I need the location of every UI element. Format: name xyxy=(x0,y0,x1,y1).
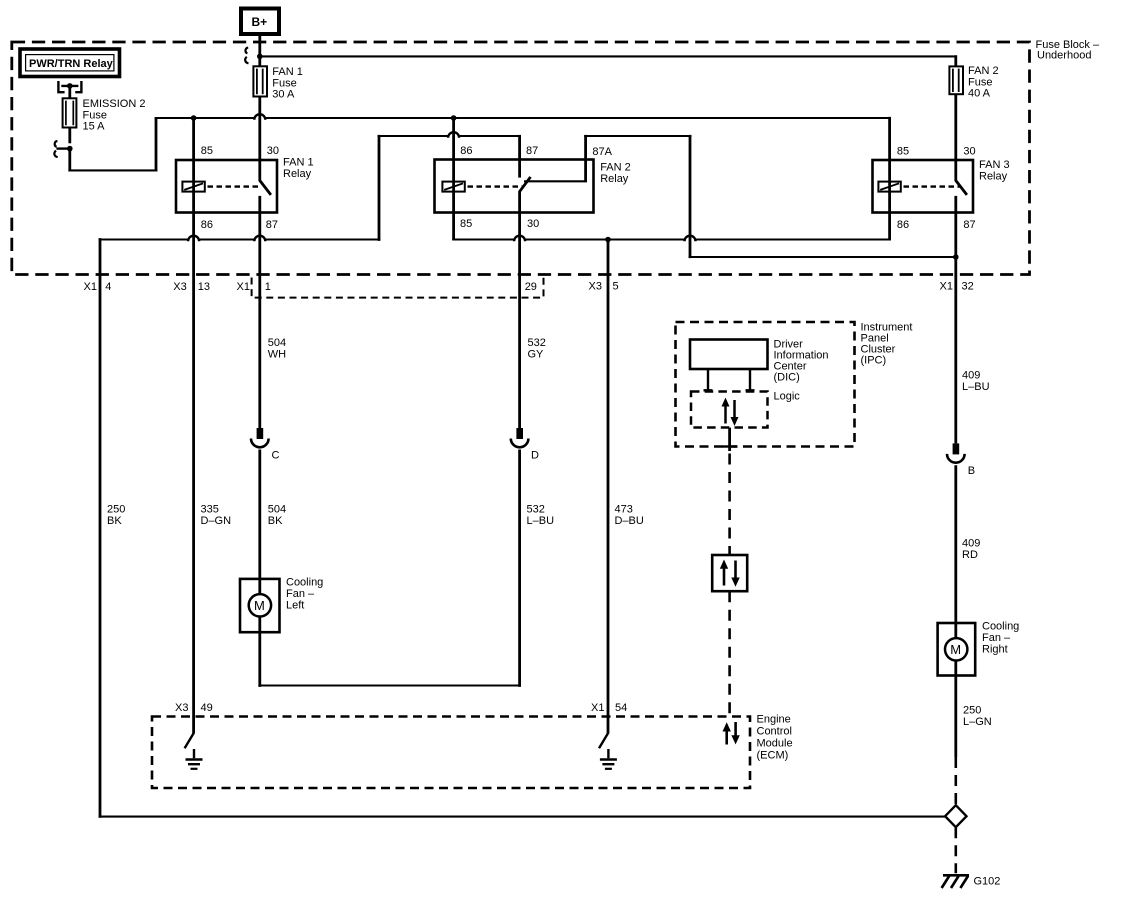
fuse FAN2 40A xyxy=(949,66,963,94)
in-line terminal hooks at B+ fuse block entry xyxy=(245,48,248,54)
svg-text:86: 86 xyxy=(201,219,213,231)
svg-text:(ECM): (ECM) xyxy=(757,750,789,762)
crossover y136 line over FAN2 coil wire xyxy=(448,132,459,138)
svg-text:RD: RD xyxy=(962,549,978,561)
junction dot bus2 to 473 D-BU drop xyxy=(605,237,611,243)
svg-text:87A: 87A xyxy=(592,146,612,158)
svg-text:X1: X1 xyxy=(84,281,97,293)
wire connector B to right fan motor xyxy=(954,465,957,757)
svg-text:Cooling: Cooling xyxy=(286,577,323,589)
svg-text:Right: Right xyxy=(982,644,1008,656)
svg-text:532: 532 xyxy=(528,337,546,349)
relay FAN2 coil xyxy=(442,182,464,192)
ECM dashed box xyxy=(152,717,750,789)
wire PWR/TRN terminal to EMISSION 2 fuse xyxy=(68,86,71,98)
svg-text:Relay: Relay xyxy=(600,173,629,185)
ECM serial data arrows xyxy=(723,722,740,745)
svg-text:30: 30 xyxy=(267,145,279,157)
svg-text:M: M xyxy=(950,642,961,657)
wire EMISSION 2 fuse to in-line connector xyxy=(68,128,71,144)
svg-text:Logic: Logic xyxy=(774,391,801,403)
gateway box arrows xyxy=(720,560,740,587)
svg-text:54: 54 xyxy=(615,702,627,714)
wire bus2-right FAN2 pin85 to FAN3 pin86 ECM link xyxy=(452,238,891,240)
svg-text:Relay: Relay xyxy=(283,168,312,180)
svg-text:X3: X3 xyxy=(589,281,602,293)
wire FAN2 pin87A route to FAN3 pin87 xyxy=(524,180,587,182)
PWR/TRN Relay callout box xyxy=(20,49,120,77)
serial data gateway box xyxy=(712,555,747,591)
in-line connector B xyxy=(947,443,965,462)
svg-text:87: 87 xyxy=(526,145,538,157)
serial data line IPC to ECM xyxy=(728,428,731,451)
serial data dashed line to ECM xyxy=(728,591,731,716)
svg-text:BK: BK xyxy=(268,515,283,527)
svg-text:409: 409 xyxy=(962,538,980,550)
svg-text:(DIC): (DIC) xyxy=(774,372,800,384)
svg-text:532: 532 xyxy=(527,504,545,516)
crossover bus2 over FAN2 pin30 wire xyxy=(514,236,525,242)
svg-text:Relay: Relay xyxy=(979,171,1008,183)
svg-text:FAN 1: FAN 1 xyxy=(272,66,303,78)
wire FAN2 pin30 down to connector D xyxy=(518,213,521,429)
svg-text:D: D xyxy=(531,450,539,462)
crossover bus2 over 87A wire xyxy=(685,236,696,242)
svg-text:X3: X3 xyxy=(173,281,186,293)
wire FAN3 pin30 with contact blade xyxy=(956,94,967,195)
svg-text:FAN 2: FAN 2 xyxy=(968,65,999,77)
svg-text:Cooling: Cooling xyxy=(982,621,1019,633)
svg-text:L–BU: L–BU xyxy=(527,515,555,527)
relay FAN3 box xyxy=(873,160,974,213)
IPC border crossing dash xyxy=(723,445,738,447)
svg-text:5: 5 xyxy=(613,281,619,293)
svg-text:X3: X3 xyxy=(175,702,188,714)
svg-text:40 A: 40 A xyxy=(968,88,991,100)
wire dashed splice to ground G102 xyxy=(954,827,957,873)
svg-text:Fuse: Fuse xyxy=(968,76,992,88)
svg-text:FAN 2: FAN 2 xyxy=(600,162,631,174)
svg-text:Engine: Engine xyxy=(757,714,791,726)
svg-text:4: 4 xyxy=(105,281,111,293)
svg-text:L–BU: L–BU xyxy=(962,381,990,393)
svg-text:(IPC): (IPC) xyxy=(861,355,887,367)
svg-text:15 A: 15 A xyxy=(83,121,106,133)
motor M1 circle xyxy=(249,594,271,616)
relay FAN1 coil-contact dashed link xyxy=(208,185,259,187)
svg-text:86: 86 xyxy=(897,219,909,231)
motor M1 cooling fan left box xyxy=(240,579,280,632)
logic box serial data arrows xyxy=(722,398,739,427)
svg-text:1: 1 xyxy=(265,281,271,293)
relay FAN3 coil xyxy=(878,182,900,192)
X1 underhood connector dashed outline xyxy=(252,278,544,298)
svg-text:30: 30 xyxy=(963,146,975,158)
wire EMISSION 2 output to relay coil bus xyxy=(68,149,71,172)
svg-text:32: 32 xyxy=(962,281,974,293)
svg-text:250: 250 xyxy=(107,504,125,516)
svg-text:Control: Control xyxy=(757,726,792,738)
svg-text:250: 250 xyxy=(963,705,981,717)
svg-text:29: 29 xyxy=(525,281,537,293)
wire FAN1 pin85 coil pin86 down to ECM X3-49 xyxy=(192,118,195,734)
svg-text:Fuse: Fuse xyxy=(83,109,107,121)
svg-text:504: 504 xyxy=(268,337,286,349)
svg-text:49: 49 xyxy=(201,702,213,714)
svg-text:D–BU: D–BU xyxy=(615,515,644,527)
svg-text:30: 30 xyxy=(527,218,539,230)
svg-text:L–GN: L–GN xyxy=(963,716,992,728)
motor M2 circle xyxy=(945,638,967,660)
wire 473 D-BU drop to ECM X1-54 xyxy=(607,240,610,734)
DIC legs xyxy=(708,369,750,390)
svg-text:Fuse: Fuse xyxy=(272,77,296,89)
DIC display box xyxy=(690,340,768,370)
wire dashed to splice xyxy=(954,757,957,805)
svg-text:87: 87 xyxy=(266,219,278,231)
ECM high speed driver switch to ground xyxy=(599,733,617,769)
wire FAN3 pin87 down to connector B xyxy=(954,196,957,444)
svg-text:B: B xyxy=(968,465,975,477)
wire FAN2 pin87 feed from y136 line xyxy=(378,135,381,241)
svg-text:G102: G102 xyxy=(974,876,1001,888)
ECM low speed driver switch to ground xyxy=(185,733,203,769)
crossover bus2 over FAN1 pin86 wire xyxy=(188,236,199,242)
relay FAN3 coil-contact dashed link xyxy=(904,185,960,187)
svg-text:FAN 1: FAN 1 xyxy=(283,157,314,169)
relay FAN1 coil xyxy=(182,182,204,192)
svg-text:86: 86 xyxy=(460,145,472,157)
junction dot 87A to FAN3 87 wire xyxy=(953,254,959,260)
svg-text:473: 473 xyxy=(615,504,633,516)
in-line connector hooks below EMISSION 2 fuse xyxy=(55,141,58,147)
svg-text:M: M xyxy=(254,598,265,613)
svg-text:X1: X1 xyxy=(237,281,250,293)
wire FAN1 pin30 with contact blade xyxy=(260,97,271,195)
IPC dashed box xyxy=(676,322,855,447)
svg-text:Underhood: Underhood xyxy=(1037,50,1091,62)
ground G102 symbol xyxy=(942,875,969,888)
wire B+ feed down into fuse block xyxy=(258,34,261,66)
svg-text:Left: Left xyxy=(286,600,304,612)
svg-text:GY: GY xyxy=(528,349,545,361)
svg-text:FAN 3: FAN 3 xyxy=(979,159,1010,171)
motor M2 cooling fan right box xyxy=(938,623,976,676)
svg-text:B+: B+ xyxy=(252,15,268,29)
crossover bus2 over FAN1 pin87 wire xyxy=(254,236,265,241)
svg-text:Fan –: Fan – xyxy=(982,632,1011,644)
svg-text:D–GN: D–GN xyxy=(201,515,232,527)
wire FAN2 pin30 with contact blade xyxy=(520,177,531,213)
B+ power node box xyxy=(241,9,279,35)
junction dot bus1 to FAN2 coil xyxy=(451,115,457,121)
svg-text:EMISSION 2: EMISSION 2 xyxy=(83,98,146,110)
svg-text:C: C xyxy=(272,450,280,462)
crossover bus1 over FAN1 pin30 wire xyxy=(254,114,265,119)
svg-text:PWR/TRN Relay: PWR/TRN Relay xyxy=(29,58,114,70)
wire FAN2 pin86 coil pin85 down to bus2 xyxy=(452,118,455,240)
wire connector C to left fan motor and loop to connector D xyxy=(258,450,261,687)
svg-text:X1: X1 xyxy=(591,702,604,714)
svg-text:85: 85 xyxy=(460,218,472,230)
svg-text:Module: Module xyxy=(757,738,793,750)
in-line connector C xyxy=(251,428,269,447)
junction dot PWR/TRN terminal xyxy=(67,83,73,89)
fuse block underhood dashed box xyxy=(12,42,1030,275)
fuse FAN1 30A xyxy=(253,66,267,96)
relay FAN1 box xyxy=(176,160,277,213)
svg-text:30 A: 30 A xyxy=(272,89,295,101)
svg-text:BK: BK xyxy=(107,515,122,527)
svg-text:85: 85 xyxy=(201,145,213,157)
junction dot at EMISSION 2 connector xyxy=(67,146,73,152)
svg-text:Fan –: Fan – xyxy=(286,588,315,600)
junction dot B+ / bus0 xyxy=(257,54,263,60)
wire bus1 relay coil feed xyxy=(155,117,891,119)
junction dot bus1 to FAN1 coil xyxy=(191,115,197,121)
DIC logic dashed box xyxy=(691,392,768,428)
relay FAN2 box xyxy=(435,160,594,213)
wire 250 BK ground run bus2-left and left drop to splice xyxy=(99,238,381,240)
svg-text:504: 504 xyxy=(268,504,286,516)
fuse EMISSION 2 15A xyxy=(63,98,77,127)
svg-text:13: 13 xyxy=(198,281,210,293)
relay FAN2 coil-contact dashed link xyxy=(468,185,524,187)
wire bus0 from B+ to FAN2 fuse xyxy=(260,55,957,57)
wire FAN1 pin87 down to connector C xyxy=(258,196,261,428)
svg-text:335: 335 xyxy=(201,504,219,516)
svg-text:409: 409 xyxy=(962,370,980,382)
in-line connector D xyxy=(511,428,529,447)
PWR/TRN relay output terminal brackets xyxy=(58,81,81,92)
svg-text:85: 85 xyxy=(897,146,909,158)
svg-text:87: 87 xyxy=(963,219,975,231)
svg-text:WH: WH xyxy=(268,349,286,361)
splice diamond S1 xyxy=(945,805,966,827)
svg-text:X1: X1 xyxy=(940,281,953,293)
